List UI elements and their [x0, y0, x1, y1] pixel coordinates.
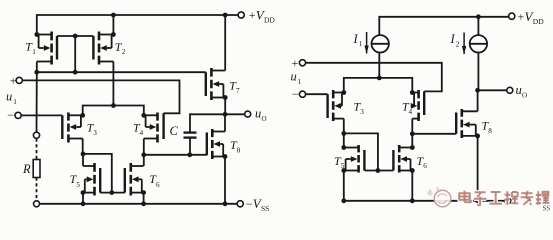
- junction T3 source-bulk: [80, 113, 85, 118]
- wire diff output to T8 gate: [144, 154, 207, 156]
- junction T2 source-bulk: [111, 32, 116, 37]
- wire T7 drain to rail: [224, 15, 226, 71]
- terminal output uO (right): [507, 87, 513, 93]
- svg-text:O: O: [262, 115, 267, 123]
- wire I1 to tail: [378, 53, 380, 78]
- svg-text:I: I: [450, 32, 456, 46]
- transistor T2: [93, 32, 113, 65]
- transistor T5: [83, 163, 100, 196]
- svg-text:+: +: [518, 9, 525, 23]
- junction T4-T6 drains node: [141, 152, 146, 157]
- current source I1: [372, 35, 389, 52]
- terminal output uO (left): [245, 111, 251, 117]
- wire T5 diode connection: [83, 154, 112, 193]
- wire T2 drain to tail: [112, 62, 114, 106]
- junction T8 source-bulk (right): [475, 134, 480, 139]
- svg-text:3: 3: [93, 129, 97, 137]
- junction diode link to gate link: [109, 190, 114, 195]
- label I2: [450, 32, 460, 48]
- svg-text:u: u: [291, 70, 297, 84]
- label -VSS (left): [246, 196, 270, 213]
- svg-text:1: 1: [359, 40, 363, 48]
- junction T6-rail: [141, 201, 146, 206]
- wire T6 source to rail: [143, 193, 145, 204]
- wire +VDD rail (left circuit): [37, 15, 238, 35]
- wire -VSS rail (left): [40, 203, 238, 205]
- junction I2-rail: [476, 14, 481, 19]
- wire T5 source to rail: [82, 193, 84, 204]
- label T3 (right): [354, 99, 365, 115]
- wire -VSS rail (right): [344, 200, 505, 202]
- svg-text:2: 2: [122, 48, 126, 56]
- label T1: [25, 40, 36, 56]
- wire T7 source to output: [224, 98, 226, 115]
- junction T5-rail (right): [341, 198, 346, 203]
- wire T3 drain down: [82, 139, 84, 154]
- wire - input to T3 gate: [21, 114, 62, 116]
- transistor T4: [144, 113, 164, 143]
- svg-text:DD: DD: [533, 17, 544, 26]
- junction T8-rail: [223, 201, 228, 206]
- transistor T1: [37, 32, 57, 65]
- label + input (left): [10, 73, 17, 87]
- label T8 (right): [482, 118, 493, 134]
- label +VDD (left): [249, 8, 276, 25]
- label T5: [70, 172, 81, 189]
- wire T6 drain lead: [143, 155, 145, 166]
- svg-text:u: u: [6, 89, 12, 103]
- svg-text:+: +: [249, 8, 256, 22]
- junction T5 source-bulk top (right): [341, 145, 346, 150]
- wire tail bus of diff pair: [83, 106, 144, 116]
- svg-text:I: I: [353, 32, 359, 46]
- wire T1 drain to bias bus: [36, 62, 38, 73]
- wire T5 drain lead (right): [343, 133, 345, 147]
- svg-text:2: 2: [456, 40, 460, 48]
- junction diode link to gate link (right): [376, 168, 381, 173]
- svg-text:+: +: [10, 73, 17, 87]
- label T6: [149, 172, 160, 189]
- junction T6 source-bulk (right): [410, 168, 415, 173]
- label u1 (right): [291, 70, 302, 86]
- svg-text:SS: SS: [543, 205, 551, 213]
- junction output node: [223, 112, 228, 117]
- junction T5-rail: [81, 201, 86, 206]
- label -VSS (right): [543, 205, 551, 213]
- wire dashed R bottom: [36, 178, 38, 201]
- junction T3 source-bulk (right): [341, 90, 346, 95]
- label T7: [229, 78, 240, 94]
- wire gate link T5-T6: [100, 192, 125, 194]
- wire - input to T3 gate (right): [306, 93, 328, 95]
- transistor T4 (right): [411, 90, 424, 121]
- transistor T6 (right): [393, 145, 412, 173]
- transistor T8 (right): [456, 109, 477, 138]
- label + input (right): [292, 56, 299, 70]
- wire gate link T1-T2: [57, 35, 93, 37]
- wire C bottom to T8 gate wire: [189, 138, 191, 155]
- junction T3-T5 drains (right): [341, 131, 346, 136]
- watermark text dianzi-gongcheng-zhuanji: [459, 191, 549, 206]
- wire T4 drain down: [143, 139, 145, 155]
- junction T4 source-bulk: [141, 113, 146, 118]
- junction T7-rail: [223, 13, 228, 18]
- svg-text:+: +: [292, 56, 299, 70]
- junction gate link center: [73, 34, 78, 39]
- junction T5 source-bulk (right): [341, 168, 346, 173]
- wire dashed R top: [36, 138, 38, 159]
- label T4: [133, 121, 144, 137]
- junction T8 source-bulk: [223, 154, 228, 159]
- junction T6 drain top (right): [410, 145, 415, 150]
- junction T1 source-bulk: [34, 32, 39, 37]
- wire T5 diode connection (right): [344, 133, 378, 170]
- wire tail bus (right): [344, 78, 413, 93]
- terminal -VSS (left): [237, 201, 243, 207]
- label uO (left): [255, 106, 267, 123]
- svg-text:8: 8: [488, 127, 492, 135]
- svg-text:4: 4: [140, 129, 144, 137]
- transistor T3 (right): [328, 90, 344, 121]
- terminal + input (left): [16, 77, 22, 83]
- wire T8 source to rail: [224, 157, 226, 204]
- junction bias bus center: [73, 70, 78, 75]
- wire diff output to T8 gate (right): [412, 133, 456, 135]
- junction C-gate wire: [187, 152, 192, 157]
- wire bias column to R terminal: [36, 72, 38, 132]
- svg-text:O: O: [522, 91, 527, 99]
- arrow I2 current direction: [462, 33, 466, 55]
- watermark sparkle: [427, 186, 440, 197]
- label uO (right): [516, 83, 528, 99]
- svg-text:6: 6: [423, 162, 427, 170]
- label T8: [230, 138, 241, 154]
- junction output node (right): [475, 88, 480, 93]
- label u1 (left): [6, 89, 17, 105]
- wire T8 drain to output node (right): [477, 90, 479, 111]
- wire T8 source to rail (right): [477, 136, 479, 201]
- terminal R bottom pin: [34, 201, 40, 207]
- terminal +VDD (left): [238, 12, 244, 18]
- junction T4-T6 drains (right): [410, 131, 415, 136]
- terminal - input (left): [15, 112, 21, 118]
- wire I2 to output node: [477, 53, 479, 91]
- junction bias bus left: [34, 70, 39, 75]
- junction T5 source-bulk: [81, 190, 86, 195]
- svg-text:6: 6: [156, 181, 160, 189]
- wire T5 source to rail (right): [343, 171, 345, 201]
- wire + input to T4 gate (right): [306, 63, 442, 92]
- wire gate link drop to bias bus: [74, 36, 76, 72]
- svg-text:SS: SS: [261, 204, 269, 213]
- terminal + input (right): [299, 60, 305, 66]
- junction T4 source-bulk (right): [410, 90, 415, 95]
- svg-text:C: C: [170, 124, 179, 138]
- svg-text:4: 4: [409, 108, 413, 116]
- terminal +VDD (right): [509, 13, 515, 19]
- label T6 (right): [417, 154, 428, 170]
- wire T5 drain lead: [82, 154, 84, 166]
- transistor T6: [125, 163, 144, 196]
- svg-text:−: −: [292, 87, 299, 101]
- svg-text:1: 1: [32, 48, 36, 56]
- label T4 (right): [402, 99, 413, 115]
- label T3: [87, 121, 98, 137]
- junction tail center (right): [377, 76, 382, 81]
- label - input (right): [292, 87, 299, 101]
- junction T3-T5 drains: [81, 152, 86, 157]
- svg-text:7: 7: [236, 87, 240, 95]
- svg-text:−: −: [246, 197, 253, 211]
- junction tail center: [111, 103, 116, 108]
- transistor T3: [62, 113, 82, 143]
- watermark logo circle: [434, 190, 451, 207]
- capacitor C: [184, 133, 197, 138]
- wire bias bus (line A) to T7 gate: [36, 71, 206, 73]
- svg-text:DD: DD: [264, 16, 275, 25]
- svg-text:1: 1: [13, 98, 17, 106]
- label +VDD (right): [518, 9, 545, 26]
- transistor T5 (right): [344, 145, 365, 173]
- wire T6 drain lead (right): [411, 134, 413, 148]
- arrow I1 current direction: [364, 32, 368, 54]
- junction T6-rail (right): [410, 198, 415, 203]
- svg-text:−: −: [7, 108, 14, 122]
- svg-text:8: 8: [237, 146, 241, 154]
- wire T4 drain down (right): [411, 119, 413, 134]
- label T2: [115, 40, 126, 56]
- svg-text:5: 5: [76, 181, 80, 189]
- wire T8 drain to output: [224, 114, 226, 131]
- label - input (left): [7, 108, 14, 122]
- transistor T7: [206, 68, 225, 100]
- svg-text:u: u: [255, 106, 261, 120]
- wire T3 drain down (right): [343, 119, 345, 134]
- svg-text:u: u: [516, 83, 522, 97]
- svg-text:R: R: [22, 162, 31, 176]
- terminal -VSS (right): [505, 198, 511, 204]
- terminal - input (right): [299, 91, 305, 97]
- wire + input to T4 gate: [22, 80, 179, 113]
- wire +VDD rail (right circuit): [379, 17, 508, 35]
- wire T6 source to rail (right): [411, 171, 413, 201]
- junction T6 source-bulk: [141, 190, 146, 195]
- label C: [170, 124, 179, 138]
- junction T7 source-bulk: [223, 95, 228, 100]
- svg-text:1: 1: [298, 78, 302, 86]
- terminal R top pin: [33, 132, 39, 138]
- wire T2 source to rail: [112, 15, 114, 35]
- wire I2 to rail: [477, 17, 479, 35]
- wire gate link T5-T6 (right): [364, 170, 393, 172]
- wire output to uO terminal (right): [478, 89, 507, 91]
- resistor R: [33, 160, 40, 178]
- transistor T8: [207, 129, 225, 159]
- junction T2-rail: [111, 13, 116, 18]
- wire C top to output bus: [190, 114, 245, 132]
- junction T8-rail (right): [475, 198, 480, 203]
- current source I2: [470, 35, 487, 52]
- label R: [22, 162, 31, 176]
- label I1: [353, 32, 363, 48]
- svg-text:3: 3: [360, 108, 364, 116]
- label T5 (right): [334, 154, 345, 170]
